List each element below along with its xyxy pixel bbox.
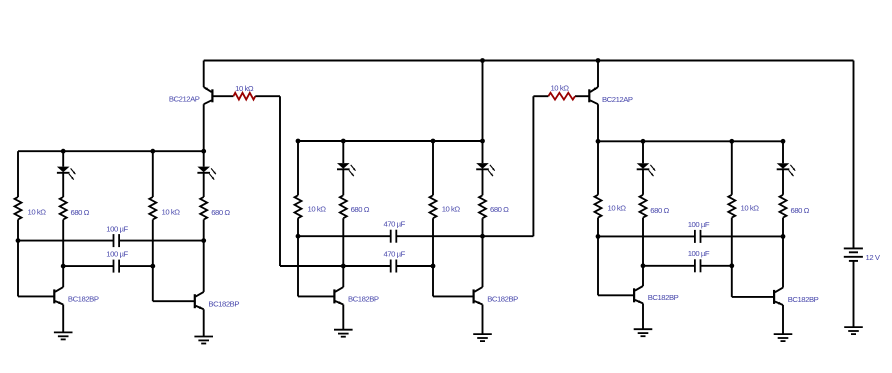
svg-text:100 µF: 100 µF [688, 249, 710, 258]
svg-text:BC182BP: BC182BP [208, 299, 239, 308]
svg-text:680 Ω: 680 Ω [791, 206, 810, 215]
svg-text:10 kΩ: 10 kΩ [235, 84, 254, 93]
svg-text:BC212AP: BC212AP [169, 95, 200, 104]
svg-text:BC182BP: BC182BP [487, 295, 518, 304]
svg-text:10 kΩ: 10 kΩ [28, 207, 47, 216]
svg-text:10 kΩ: 10 kΩ [550, 83, 569, 92]
svg-text:680 Ω: 680 Ω [211, 208, 230, 217]
svg-text:10 kΩ: 10 kΩ [308, 204, 327, 213]
svg-text:100 µF: 100 µF [106, 249, 128, 258]
svg-text:BC182BP: BC182BP [648, 293, 679, 302]
svg-text:BC182BP: BC182BP [788, 295, 819, 304]
svg-text:10 kΩ: 10 kΩ [741, 203, 760, 212]
svg-text:470 µF: 470 µF [384, 220, 406, 229]
svg-text:BC182BP: BC182BP [348, 294, 379, 303]
svg-text:680 Ω: 680 Ω [490, 205, 509, 214]
svg-text:680 Ω: 680 Ω [650, 206, 669, 215]
svg-text:10 kΩ: 10 kΩ [162, 207, 181, 216]
svg-text:470 µF: 470 µF [384, 249, 406, 258]
svg-text:680 Ω: 680 Ω [351, 205, 370, 214]
svg-text:12 V: 12 V [866, 253, 881, 262]
svg-text:10 kΩ: 10 kΩ [442, 204, 461, 213]
svg-text:100 µF: 100 µF [106, 224, 128, 233]
svg-text:BC182BP: BC182BP [68, 294, 99, 303]
svg-text:10 kΩ: 10 kΩ [608, 203, 627, 212]
svg-text:100 µF: 100 µF [688, 220, 710, 229]
svg-text:BC212AP: BC212AP [602, 95, 633, 104]
svg-text:680 Ω: 680 Ω [71, 208, 90, 217]
